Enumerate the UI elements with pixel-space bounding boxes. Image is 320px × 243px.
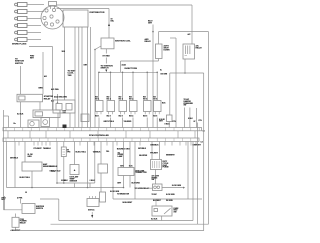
svg-text:BLK/RED: BLK/RED [117, 149, 126, 151]
svg-text:GRY/BLK: GRY/BLK [10, 158, 19, 160]
svg-text:8 BLK: 8 BLK [165, 123, 171, 125]
svg-text:ORG/LT BLU: ORG/LT BLU [50, 170, 62, 172]
svg-text:NO 4: NO 4 [129, 97, 133, 100]
svg-text:SWITCH: SWITCH [15, 63, 23, 65]
svg-text:8L DK GRN: 8L DK GRN [172, 185, 182, 187]
svg-text:GRY/LT BLU: GRY/LT BLU [104, 121, 115, 123]
svg-text:DK GRN: DK GRN [166, 200, 173, 202]
svg-text:ORG: ORG [126, 149, 131, 151]
svg-text:8L DK GRN: 8L DK GRN [166, 194, 175, 196]
svg-text:BLK/ORG: BLK/ORG [132, 182, 141, 184]
svg-text:4 PNK: 4 PNK [17, 196, 23, 199]
svg-text:TAN/BLK: TAN/BLK [93, 151, 101, 154]
svg-text:RELAY: RELAY [196, 47, 203, 50]
svg-text:LAMP: LAMP [118, 155, 124, 158]
svg-text:TO BRAKE SW: TO BRAKE SW [117, 192, 129, 195]
svg-text:YEL: YEL [106, 151, 109, 153]
svg-text:NO 3: NO 3 [119, 98, 123, 100]
svg-text:RELAY: RELAY [44, 97, 51, 100]
svg-text:SWITCH: SWITCH [36, 208, 44, 210]
svg-text:PURGE: PURGE [163, 167, 170, 169]
svg-text:2 BLK: 2 BLK [90, 180, 96, 182]
svg-text:NO 1: NO 1 [95, 98, 99, 100]
svg-text:BLK/LT BLU: BLK/LT BLU [20, 177, 31, 179]
svg-text:M BLK/WHT: M BLK/WHT [123, 202, 134, 204]
svg-text:J2: J2 [25, 192, 27, 194]
svg-text:GRY/BLK: GRY/BLK [138, 148, 147, 150]
svg-text:INJ 6: INJ 6 [153, 116, 157, 118]
svg-text:8L BLK: 8L BLK [17, 113, 24, 115]
svg-text:INJECTORS: INJECTORS [125, 68, 138, 70]
svg-text:INJ 5: INJ 5 [143, 116, 147, 118]
svg-text:TO S/C: TO S/C [152, 194, 158, 196]
svg-text:YEL/RED: YEL/RED [124, 121, 132, 123]
svg-text:BLK/WHT: BLK/WHT [153, 200, 162, 202]
svg-text:BLK/PNK: BLK/PNK [139, 155, 148, 157]
svg-text:BRN/WHT: BRN/WHT [192, 144, 201, 146]
svg-text:A142 DBL/ORG: A142 DBL/ORG [54, 96, 68, 99]
svg-text:8L BLK: 8L BLK [151, 218, 158, 220]
svg-text:PCM CONTROLLER: PCM CONTROLLER [89, 135, 109, 137]
svg-text:TAN/BLK: TAN/BLK [50, 165, 58, 168]
svg-text:CONNECTOR: CONNECTOR [135, 172, 147, 174]
svg-text:C2: C2 [201, 142, 203, 144]
svg-text:NO 2: NO 2 [107, 98, 111, 100]
svg-text:SS/TCC: SS/TCC [88, 209, 95, 211]
svg-text:TAN/BLK: TAN/BLK [43, 147, 51, 150]
svg-text:RELAY: RELAY [145, 40, 152, 43]
svg-text:SENSOR: SENSOR [70, 180, 78, 182]
svg-text:INJ 4: INJ 4 [129, 115, 133, 118]
svg-text:GRN: GRN [28, 156, 33, 158]
svg-text:DOWN: DOWN [164, 49, 171, 51]
svg-text:2 BLK: 2 BLK [63, 180, 69, 182]
svg-text:8Y RED: 8Y RED [103, 56, 111, 58]
svg-text:SWITCH: SWITCH [101, 67, 109, 69]
svg-text:B+: B+ [14, 123, 16, 125]
svg-text:SW: SW [152, 179, 155, 181]
svg-text:A142: A142 [122, 64, 126, 67]
svg-text:NO 6: NO 6 [153, 98, 157, 100]
svg-text:INJ 2: INJ 2 [107, 116, 111, 118]
svg-text:PPL/WHT: PPL/WHT [34, 148, 43, 150]
svg-text:BRN: BRN [39, 88, 44, 90]
svg-text:DISTRIBUTOR: DISTRIBUTOR [90, 12, 105, 14]
svg-text:INJ 3: INJ 3 [119, 116, 123, 118]
svg-text:SW: SW [184, 105, 187, 107]
svg-text:SPARK PLUGS: SPARK PLUGS [12, 43, 27, 46]
svg-text:BRN/WHT: BRN/WHT [166, 154, 175, 156]
svg-text:TER: TER [68, 75, 73, 77]
svg-text:BLK/LT BLU: BLK/LT BLU [76, 152, 87, 154]
svg-text:PPL/WHT: PPL/WHT [150, 152, 159, 154]
svg-text:SW: SW [174, 212, 177, 214]
svg-text:8L: 8L [160, 69, 162, 71]
svg-text:ORG/BLK: ORG/BLK [150, 144, 159, 146]
svg-text:DBL: DBL [111, 20, 114, 22]
svg-text:1K6: 1K6 [62, 51, 65, 53]
svg-text:INJ 1: INJ 1 [95, 116, 99, 118]
svg-text:NO 5: NO 5 [143, 98, 147, 100]
svg-text:RELAY: RELAY [20, 222, 27, 225]
svg-text:A21 DBL: A21 DBL [51, 88, 60, 91]
svg-text:IGNITION COIL: IGNITION COIL [115, 41, 131, 43]
svg-text:DK GRN: DK GRN [161, 74, 168, 76]
